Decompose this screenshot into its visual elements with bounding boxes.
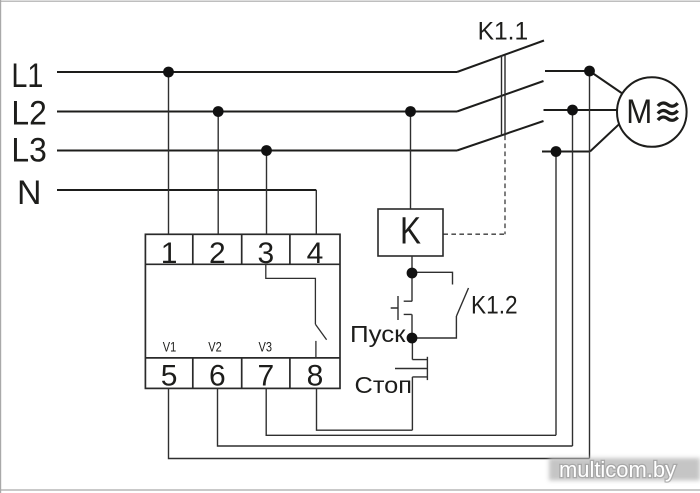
wire K1.2 bottom to node B bbox=[412, 316, 456, 338]
watermark multicom.by bbox=[549, 457, 700, 482]
wire phase L2 feed bbox=[57, 111, 457, 113]
wire phase L1 feed bbox=[57, 71, 457, 73]
contact K1.2 blade bbox=[457, 288, 469, 316]
svg-text:2: 2 bbox=[209, 237, 226, 270]
internal relay wire from pin 3 bbox=[266, 264, 316, 324]
svg-text:L1: L1 bbox=[11, 57, 43, 95]
junction motor line 1 bbox=[584, 66, 595, 77]
wire pin 5 to motor line 1 bbox=[169, 388, 590, 458]
svg-text:K1.1: K1.1 bbox=[478, 18, 529, 46]
wire L1 junction to pin 1 bbox=[168, 72, 170, 234]
wire motor lead bottom bbox=[590, 124, 620, 152]
contact K1.1 pole 1 blade bbox=[457, 41, 544, 73]
button SB2 Стоп fixed hooks bbox=[412, 360, 427, 377]
wire L2 tap to coil K bbox=[410, 112, 412, 210]
wire L2 junction to pin 2 bbox=[217, 112, 219, 235]
wire motor line 3 vertical bbox=[555, 152, 557, 436]
svg-text:K: K bbox=[400, 211, 421, 253]
svg-text:7: 7 bbox=[257, 360, 274, 393]
contact K1.1 linkage bar bbox=[502, 55, 506, 136]
wire motor line 1 vertical bbox=[589, 71, 591, 459]
button SB1 Пуск contact plates bbox=[404, 301, 413, 314]
motor 3~ waves symbol bbox=[658, 103, 678, 120]
junction L3/pin3 bbox=[261, 145, 272, 156]
contact K1.1 pole 2 blade bbox=[457, 81, 544, 112]
svg-text:4: 4 bbox=[307, 237, 324, 270]
wire L3 to motor bbox=[542, 151, 590, 153]
svg-text:N: N bbox=[17, 174, 42, 212]
svg-text:V3: V3 bbox=[259, 340, 273, 355]
wire L2 to motor bbox=[544, 109, 618, 111]
svg-text:6: 6 bbox=[209, 360, 226, 393]
wire phase L3 feed bbox=[57, 150, 457, 152]
button SB2 Стоп actuator bbox=[395, 368, 427, 370]
junction L2/coil K bbox=[405, 106, 416, 117]
junction motor line 3 bbox=[551, 146, 562, 157]
junction L1/pin1 bbox=[163, 67, 174, 78]
svg-text:K1.2: K1.2 bbox=[471, 292, 518, 320]
contact K1.1 pole 3 blade bbox=[457, 121, 544, 151]
wire motor line 2 vertical bbox=[572, 110, 574, 446]
junction motor line 2 bbox=[567, 105, 578, 116]
button SB2 Стоп wire bottom bbox=[411, 377, 413, 430]
internal relay contact blade bbox=[315, 324, 326, 340]
wire pin 7 to motor line 3 bbox=[266, 388, 556, 435]
wire L1 to motor bbox=[545, 70, 590, 72]
button SB1 Пуск wire top bbox=[411, 273, 413, 301]
internal relay wire to pin 8 bbox=[315, 341, 317, 358]
svg-text:Стоп: Стоп bbox=[355, 372, 413, 398]
svg-text:1: 1 bbox=[161, 237, 178, 270]
button SB2 Стоп moving bridge bbox=[426, 357, 428, 380]
contactor coil K (U1) bbox=[378, 209, 443, 256]
button SB1 Пуск actuator bbox=[391, 296, 398, 320]
junction node A below coil bbox=[407, 268, 418, 279]
junction node B Пуск bbox=[407, 333, 418, 344]
wire coil K to node A bbox=[411, 256, 413, 273]
svg-text:L2: L2 bbox=[11, 95, 46, 133]
wire node A to K1.2 top bbox=[412, 272, 453, 284]
relay device body bbox=[145, 234, 340, 388]
button SB1 Пуск wire bottom bbox=[411, 314, 413, 338]
motor M1 circle bbox=[617, 77, 687, 147]
wire L3 junction to pin 3 bbox=[266, 151, 268, 235]
svg-text:5: 5 bbox=[161, 360, 178, 393]
wire motor lead top bbox=[590, 71, 623, 94]
svg-text:M: M bbox=[626, 93, 652, 131]
svg-text:Пуск: Пуск bbox=[350, 321, 407, 347]
svg-text:V1: V1 bbox=[163, 340, 177, 355]
wire N to pin 4 bbox=[315, 190, 317, 234]
wire pin 6 to motor line 2 bbox=[218, 388, 573, 446]
button SB2 Стоп wire top bbox=[411, 338, 413, 360]
junction L2/pin2 bbox=[213, 106, 224, 117]
svg-text:multicom.by: multicom.by bbox=[559, 457, 676, 482]
wire pin 8 to button Стоп bbox=[317, 388, 413, 430]
svg-text:L3: L3 bbox=[11, 132, 46, 170]
svg-text:8: 8 bbox=[307, 360, 324, 393]
mechanical link dashed K coil to K1.1 bbox=[443, 136, 505, 235]
svg-text:V2: V2 bbox=[208, 340, 222, 355]
wire neutral N feed bbox=[57, 189, 316, 191]
